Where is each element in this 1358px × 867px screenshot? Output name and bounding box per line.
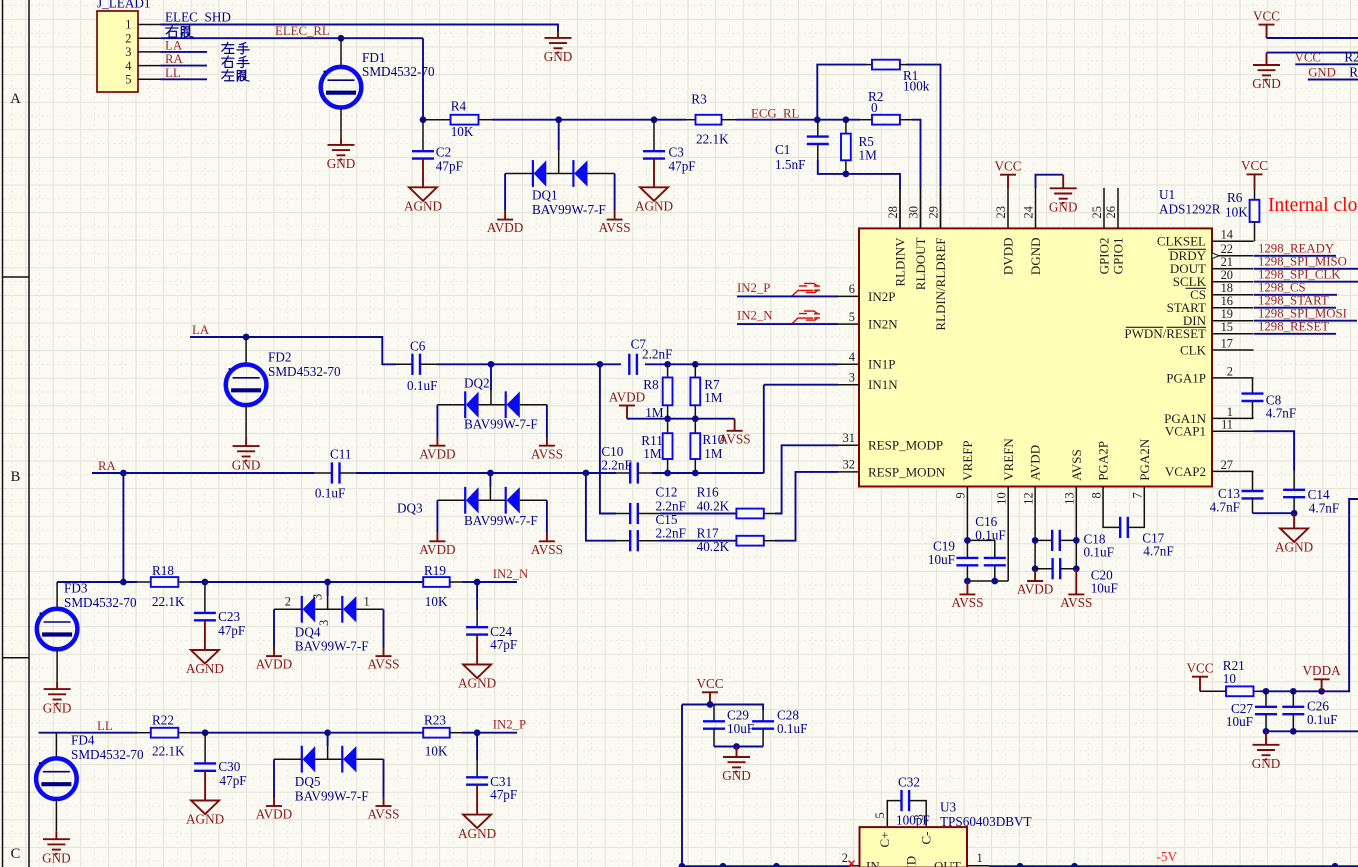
- wire 1298_RESET: [1254, 333, 1336, 335]
- resistor R19 10K: [423, 563, 462, 609]
- wire GND rail top: [1267, 52, 1358, 54]
- net label IN2_P: [737, 281, 770, 295]
- wire VCC column to bottom bus: [681, 705, 683, 867]
- svg-text:AGND: AGND: [458, 676, 496, 691]
- svg-text:1.5nF: 1.5nF: [775, 157, 805, 172]
- svg-text:47pF: 47pF: [218, 623, 245, 638]
- junction RA column: [120, 470, 127, 477]
- svg-text:VCC: VCC: [1253, 8, 1280, 23]
- svg-text:AVDD: AVDD: [609, 389, 645, 404]
- net label IN2_P: [493, 718, 526, 732]
- wire 1298_SPI_CLK: [1254, 281, 1358, 283]
- svg-text:PWDN/RESET: PWDN/RESET: [1124, 326, 1206, 341]
- svg-text:3: 3: [311, 594, 325, 600]
- svg-text:C6: C6: [410, 339, 426, 354]
- differential pair marker: [792, 311, 820, 324]
- dual diode DQ3 BAV99W-7-F: [397, 473, 547, 533]
- svg-text:AGND: AGND: [635, 199, 673, 214]
- capacitor C13 4.7nF: [1210, 471, 1264, 514]
- svg-text:25: 25: [1090, 206, 1104, 218]
- svg-text:C: C: [11, 846, 21, 862]
- junction bus 3: [773, 863, 780, 867]
- svg-text:SMD4532-70: SMD4532-70: [64, 595, 137, 610]
- power port AVSS at DQ3: [531, 533, 563, 557]
- svg-text:4.7nF: 4.7nF: [1266, 406, 1296, 421]
- junction DQ2 top: [488, 361, 495, 368]
- net label RA: [98, 459, 117, 473]
- junction DQ4 top: [324, 579, 331, 586]
- svg-text:4.7nF: 4.7nF: [1143, 544, 1173, 559]
- svg-text:0.1uF: 0.1uF: [975, 527, 1005, 542]
- U1 pin 19 DIN: [1183, 307, 1254, 328]
- junction DQ5 top: [324, 729, 331, 736]
- junction DQ1 top: [555, 116, 562, 123]
- svg-text:AVSS: AVSS: [1069, 449, 1084, 481]
- spark gap FD4 SMD4532-70: [36, 733, 144, 832]
- resistor designator R2x (clipped): [1344, 49, 1358, 64]
- svg-text:AVDD: AVDD: [256, 807, 292, 822]
- svg-text:LA: LA: [192, 323, 210, 337]
- svg-text:AVSS: AVSS: [599, 220, 631, 235]
- junction AVDD C18: [1032, 537, 1039, 544]
- junction VCC stub: [707, 701, 714, 708]
- svg-text:IN2P: IN2P: [868, 289, 895, 304]
- capacitor C23 47pF: [194, 582, 245, 638]
- svg-text:VCC: VCC: [1186, 661, 1213, 676]
- annotation Internal clock: [1268, 195, 1358, 216]
- U1 pin 7 PGA2N: [1131, 438, 1152, 526]
- svg-text:24: 24: [1022, 206, 1036, 218]
- power port VCC at R6: [1241, 158, 1268, 190]
- svg-text:47pF: 47pF: [490, 637, 517, 652]
- U1 pin 18 CS: [1190, 281, 1253, 302]
- svg-text:R8: R8: [643, 377, 659, 392]
- capacitor C3 47pF: [643, 120, 696, 174]
- junction GND stub: [733, 743, 740, 750]
- U1 pin 9 VREFP: [954, 440, 975, 526]
- svg-text:GND: GND: [544, 49, 573, 64]
- svg-text:R19: R19: [424, 563, 446, 578]
- ground GND at FD4: [42, 831, 71, 865]
- U1 pin 24 DGND: [1022, 188, 1043, 275]
- net label VCC: [1295, 50, 1321, 64]
- power port AVSS at DQ5: [367, 798, 399, 822]
- svg-text:17: 17: [1221, 336, 1233, 350]
- wire 1298_START: [1254, 307, 1336, 309]
- svg-text:RA: RA: [98, 459, 117, 473]
- junction bus 4: [1017, 863, 1024, 867]
- capacitor C24 47pF: [466, 582, 517, 652]
- junction C1 top: [814, 116, 821, 123]
- U1 pin 6 IN2P: [838, 282, 895, 304]
- svg-text:31: 31: [843, 431, 855, 445]
- junction C27 bottom: [1263, 728, 1270, 735]
- resistor R22 22.1K: [137, 713, 190, 759]
- svg-text:2: 2: [285, 594, 291, 608]
- svg-text:3: 3: [912, 814, 926, 820]
- sheet border frame: [3, 0, 30, 867]
- power port AVDD at DQ5: [256, 798, 292, 822]
- svg-text:C+: C+: [877, 832, 892, 848]
- resistor R11 1M: [641, 419, 672, 473]
- U1 pin 16 START: [1167, 294, 1254, 315]
- resistor R16 40.2K: [660, 485, 775, 519]
- net label ELEC_RL: [275, 24, 330, 38]
- capacitor C17 4.7nF: [1103, 517, 1174, 559]
- svg-text:VCC: VCC: [696, 676, 723, 691]
- net label RA: [165, 52, 184, 66]
- spark gap FD1 SMD4532-70: [321, 38, 435, 138]
- svg-text:IN1N: IN1N: [868, 377, 898, 392]
- svg-text:0.1uF: 0.1uF: [1307, 712, 1337, 727]
- svg-text:GND: GND: [1252, 76, 1281, 91]
- svg-text:GND: GND: [904, 856, 919, 867]
- capacitor C6 0.1uF: [396, 339, 437, 394]
- svg-text:R3: R3: [691, 92, 707, 107]
- junction C26 top: [1290, 688, 1297, 695]
- capacitor C16 0.1uF: [975, 514, 1006, 581]
- svg-text:1: 1: [364, 594, 370, 608]
- svg-text:GND: GND: [722, 768, 751, 783]
- junction AVSS C18: [1073, 537, 1080, 544]
- svg-text:7: 7: [1131, 492, 1145, 498]
- capacitor C20 10uF: [1035, 558, 1118, 596]
- junction AVDD C20: [1032, 565, 1039, 572]
- svg-text:SMD4532-70: SMD4532-70: [362, 64, 435, 79]
- svg-text:30: 30: [907, 206, 921, 218]
- IC U1 ADS1292R: [838, 187, 1254, 527]
- wire R17 to pin 32: [775, 472, 838, 541]
- U1 overline DRDY: [1168, 248, 1206, 250]
- U1 DRDY output marker: [1212, 253, 1219, 259]
- net label IN2_N: [493, 567, 529, 581]
- svg-text:GPIO1: GPIO1: [1111, 238, 1126, 275]
- svg-text:R4: R4: [451, 99, 467, 114]
- U1 overline CS: [1186, 287, 1207, 289]
- wire LL net: [39, 732, 518, 734]
- svg-text:11: 11: [1221, 418, 1233, 432]
- svg-text:47pF: 47pF: [490, 787, 517, 802]
- svg-text:C12: C12: [656, 485, 678, 500]
- svg-text:2.2nF: 2.2nF: [656, 525, 686, 540]
- net label LL: [165, 66, 181, 80]
- U1 body: [859, 187, 1221, 487]
- wire DGND to GND: [1036, 175, 1064, 188]
- ground GND at ELEC SHD: [544, 32, 573, 65]
- pin 5 description 左腿: [222, 70, 249, 82]
- power port AVDD below pin 12: [1017, 569, 1053, 597]
- ground AGND at C13 C14: [1275, 513, 1313, 554]
- resistor R21 10: [1200, 658, 1260, 696]
- wire C15 branch: [586, 473, 616, 541]
- svg-text:4.7nF: 4.7nF: [1210, 499, 1240, 514]
- junction R10 bottom: [692, 470, 699, 477]
- wire 1298_READY: [1254, 255, 1336, 257]
- junction C26 bottom: [1290, 728, 1297, 735]
- svg-text:DQ3: DQ3: [397, 501, 423, 516]
- ground GND at C27: [1252, 731, 1281, 771]
- wire C12 branch: [600, 364, 616, 513]
- svg-text:FD3: FD3: [64, 581, 88, 596]
- dual diode DQ2 BAV99W-7-F: [437, 364, 547, 437]
- svg-text:LA: LA: [165, 39, 183, 53]
- net label 1298_START: [1258, 294, 1329, 308]
- wire 1298_SPI_MOSI: [1254, 320, 1357, 322]
- wire VCC block bottom: [714, 746, 763, 748]
- svg-text:1: 1: [125, 18, 131, 32]
- svg-text:0.1uF: 0.1uF: [315, 486, 345, 501]
- wire R2 to pin 30: [912, 120, 921, 229]
- svg-text:27: 27: [1221, 458, 1233, 472]
- svg-text:RLDINV: RLDINV: [893, 237, 908, 287]
- U1 pin 13 AVSS: [1063, 449, 1084, 526]
- net label IN2_N: [737, 309, 773, 323]
- ground AGND at C24: [458, 635, 496, 691]
- svg-text:IN2_N: IN2_N: [737, 309, 773, 323]
- svg-text:AGND: AGND: [404, 199, 442, 214]
- junction C12 branch: [597, 361, 604, 368]
- wire VCC label rail: [1295, 63, 1358, 65]
- svg-text:23: 23: [994, 206, 1008, 218]
- net label LA: [192, 323, 210, 337]
- svg-text:100k: 100k: [903, 79, 930, 94]
- svg-text:29: 29: [927, 206, 941, 218]
- svg-text:A: A: [10, 91, 21, 107]
- U3 pin 5 C+: [873, 812, 892, 847]
- power port VCC top right: [1253, 8, 1280, 38]
- U1 pin 1 PGA1N: [1164, 405, 1253, 426]
- svg-text:10K: 10K: [1225, 205, 1248, 220]
- svg-text:IN2_P: IN2_P: [737, 281, 770, 295]
- svg-text:C2: C2: [436, 145, 451, 160]
- junction R4 left: [420, 116, 427, 123]
- power port VCC at R21: [1186, 661, 1213, 692]
- svg-text:47pF: 47pF: [669, 159, 696, 174]
- svg-text:FD1: FD1: [362, 50, 385, 65]
- U1 pin 22 DRDY: [1169, 242, 1253, 263]
- resistor R1 100k: [866, 60, 930, 94]
- svg-text:VCAP2: VCAP2: [1165, 464, 1206, 479]
- net label LA: [165, 39, 183, 53]
- svg-text:47pF: 47pF: [220, 773, 247, 788]
- junction C27 top: [1263, 688, 1270, 695]
- svg-text:22: 22: [1221, 242, 1233, 256]
- ground AGND at C30: [186, 771, 224, 827]
- svg-text:10uF: 10uF: [1091, 581, 1118, 596]
- net label ECG_RL: [751, 106, 800, 120]
- svg-text:LL: LL: [165, 66, 181, 80]
- capacitor C28 0.1uF: [752, 708, 807, 747]
- svg-text:GND: GND: [42, 850, 71, 865]
- wire C27 C26 bottom rail: [1266, 730, 1358, 732]
- capacitor C31 47pF: [466, 733, 517, 803]
- junction R8 top: [664, 361, 671, 368]
- svg-text:VCAP1: VCAP1: [1165, 424, 1206, 439]
- svg-text:5: 5: [873, 812, 887, 818]
- svg-text:VCC: VCC: [1295, 50, 1321, 64]
- wire FD3 row: [57, 581, 517, 583]
- power port AVDD at DQ3: [419, 533, 455, 557]
- svg-text:22.1K: 22.1K: [152, 594, 185, 609]
- wire VREFP branch: [967, 527, 994, 582]
- ground GND at DGND: [1049, 175, 1078, 215]
- svg-text:3: 3: [125, 45, 131, 59]
- wire ELEC_RL net: [161, 38, 424, 120]
- capacitor C26 0.1uF: [1282, 691, 1337, 731]
- svg-text:1M: 1M: [859, 148, 878, 163]
- svg-text:4.7nF: 4.7nF: [1309, 500, 1339, 515]
- power port AVDD at DQ2: [419, 437, 455, 461]
- svg-text:GND: GND: [43, 700, 72, 715]
- svg-text:C1: C1: [775, 142, 790, 157]
- resistor R18 22.1K: [137, 563, 190, 609]
- U1 pin 29 RLDIN/RLDREF: [927, 188, 948, 331]
- svg-text:AVDD: AVDD: [487, 220, 523, 235]
- svg-text:19: 19: [1221, 307, 1233, 321]
- U1 pin 21 DOUT: [1170, 255, 1254, 276]
- svg-text:R16: R16: [697, 485, 719, 500]
- junction C15 branch: [583, 470, 590, 477]
- junction R5 top: [843, 116, 850, 123]
- svg-text:5: 5: [125, 73, 131, 87]
- U1 pin 10 VREFN: [994, 438, 1015, 527]
- svg-text:C32: C32: [898, 775, 920, 790]
- ground GND at FD2: [232, 438, 261, 472]
- junction R8 R11 mid: [664, 415, 671, 422]
- net label 1298_CS: [1258, 281, 1306, 295]
- svg-text:28: 28: [886, 206, 900, 218]
- junction VDDA stub: [1318, 688, 1325, 695]
- wire 1298_CS: [1254, 294, 1337, 296]
- wire C13 C14 bottom: [1253, 512, 1295, 514]
- IC U3 TPS60403DBVT: [842, 800, 1032, 867]
- svg-text:12: 12: [1021, 492, 1035, 504]
- junction C23 top: [202, 579, 209, 586]
- U1 pin 11 VCAP1: [1165, 418, 1254, 439]
- svg-text:22.1K: 22.1K: [152, 744, 185, 759]
- U1 pin 32 RESP_MODN: [838, 458, 946, 480]
- svg-text:0.1uF: 0.1uF: [407, 378, 437, 393]
- resistor R3 22.1K: [686, 92, 736, 147]
- svg-text:5: 5: [849, 310, 855, 324]
- svg-text:AGND: AGND: [186, 812, 224, 827]
- capacitor C10 2.2nF: [601, 444, 652, 484]
- capacitor C12 2.2nF: [616, 485, 686, 525]
- svg-text:18: 18: [1221, 281, 1233, 295]
- svg-text:C3: C3: [669, 145, 685, 160]
- svg-text:LL: LL: [97, 719, 113, 733]
- U1 pin 3 IN1N: [838, 371, 898, 393]
- junction C16 bottom: [991, 578, 998, 585]
- svg-text:BAV99W-7-F: BAV99W-7-F: [464, 513, 538, 528]
- power port AVSS at divider: [719, 419, 751, 447]
- svg-text:R6: R6: [1227, 190, 1243, 205]
- svg-text:ADS1292R: ADS1292R: [1159, 201, 1221, 216]
- junction bus 2: [720, 863, 727, 867]
- wire VCC rail top: [1267, 37, 1358, 39]
- svg-text:Internal clock: Internal clock: [1268, 195, 1358, 216]
- svg-text:AVDD: AVDD: [256, 657, 292, 672]
- wire AVDD pin column: [1034, 527, 1036, 569]
- svg-text:AGND: AGND: [458, 826, 496, 841]
- svg-text:10: 10: [994, 492, 1008, 504]
- differential pair marker: [792, 283, 820, 296]
- svg-text:RLDOUT: RLDOUT: [913, 237, 928, 290]
- svg-text:IN2_N: IN2_N: [493, 567, 529, 581]
- sheet zone letter C: [11, 846, 21, 862]
- svg-text:B: B: [11, 469, 21, 485]
- svg-text:AVDD: AVDD: [419, 542, 455, 557]
- svg-text:R18: R18: [152, 563, 174, 578]
- svg-text:RA: RA: [165, 52, 184, 66]
- svg-text:2: 2: [1227, 364, 1233, 378]
- U1 pin 17 CLK: [1180, 336, 1254, 357]
- svg-text:0: 0: [871, 100, 878, 115]
- junction R7 R10 mid: [692, 415, 699, 422]
- svg-text:0.1uF: 0.1uF: [1084, 545, 1114, 560]
- wire VDDA rail: [1260, 499, 1358, 691]
- svg-text:10K: 10K: [425, 594, 448, 609]
- wire 1298_SPI_MISO: [1254, 268, 1358, 270]
- U1 pin 15 PWDN/RESET: [1124, 320, 1253, 341]
- svg-text:ELEC_RL: ELEC_RL: [275, 24, 330, 38]
- U1 pin 20 SCLK: [1173, 268, 1254, 289]
- capacitor C27 10uF: [1226, 691, 1277, 731]
- svg-text:32: 32: [843, 458, 855, 472]
- svg-text:FD2: FD2: [268, 350, 291, 365]
- junction R5 bottom: [843, 171, 850, 178]
- resistor R10 1M: [690, 419, 724, 473]
- ground AGND at C2: [404, 159, 442, 214]
- wire RA stub: [161, 65, 208, 67]
- net label ELEC SHD: [165, 10, 231, 25]
- capacitor C1 1.5nF: [775, 120, 829, 172]
- svg-text:6: 6: [849, 282, 855, 296]
- svg-text:AVSS: AVSS: [951, 595, 983, 610]
- svg-text:47pF: 47pF: [436, 159, 463, 174]
- wire R1 to pin 29: [906, 65, 941, 229]
- svg-text:IN1P: IN1P: [868, 357, 895, 372]
- svg-text:AVSS: AVSS: [531, 542, 563, 557]
- svg-text:AVDD: AVDD: [419, 446, 455, 461]
- ground AGND at C23: [186, 620, 224, 676]
- capacitor C2 47pF: [412, 120, 463, 174]
- junction C30 top: [202, 729, 209, 736]
- svg-text:AVDD: AVDD: [1028, 445, 1043, 481]
- svg-text:DQ2: DQ2: [464, 376, 490, 391]
- svg-text:PGA2N: PGA2N: [1137, 438, 1152, 481]
- svg-text:1M: 1M: [704, 446, 723, 461]
- ground GND at C29 C28: [722, 747, 751, 784]
- svg-text:VDDA: VDDA: [1303, 663, 1342, 678]
- power port AVSS at VREF: [951, 581, 983, 610]
- svg-text:10K: 10K: [451, 124, 474, 139]
- svg-text:IN2N: IN2N: [868, 317, 898, 332]
- U3 body: [860, 800, 1032, 867]
- U1 pin 25 GPIO2: [1090, 188, 1111, 274]
- svg-text:AVDD: AVDD: [1017, 582, 1053, 597]
- svg-text:40.2K: 40.2K: [697, 539, 730, 554]
- wire bottom bus left: [682, 865, 850, 867]
- svg-text:C23: C23: [218, 609, 240, 624]
- capacitor C19 10uF: [928, 539, 979, 568]
- spark gap FD3 SMD4532-70: [37, 581, 137, 682]
- wire bottom bus right: [989, 865, 1358, 867]
- ground GND at FD3: [43, 681, 72, 715]
- wire VCC block top: [682, 705, 763, 711]
- svg-text:DVDD: DVDD: [1001, 238, 1016, 276]
- capacitor C32 100pF: [887, 775, 929, 828]
